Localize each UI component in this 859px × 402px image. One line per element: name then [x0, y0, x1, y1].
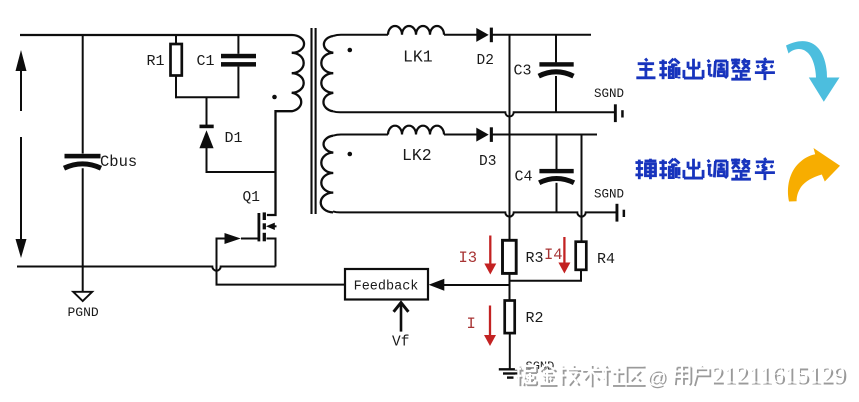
- svg-text:R2: R2: [526, 310, 544, 327]
- resistor R4: [576, 242, 587, 270]
- capacitor C1: [221, 54, 256, 59]
- capacitor C4: [539, 169, 573, 173]
- wire C1 top lead: [237, 35, 239, 54]
- transformer secondary winding 2: [321, 136, 334, 213]
- wire output 1 return rail: [333, 111, 614, 116]
- svg-text:21211615129: 21211615129: [711, 362, 845, 389]
- svg-text:C3: C3: [514, 63, 532, 80]
- transistor Q1 gate bar: [257, 213, 260, 241]
- resistor R3: [503, 240, 517, 273]
- current arrow I3: [489, 236, 491, 266]
- svg-text:I4: I4: [544, 246, 563, 264]
- label aux output regulation (Chinese): [635, 159, 656, 180]
- wire gate lead: [241, 238, 259, 240]
- current arrow I: [489, 306, 491, 337]
- wire R3 bottom to R2: [509, 273, 511, 300]
- orange arrow aux output trend: [788, 148, 840, 202]
- feedback block U1: [345, 269, 428, 300]
- wire C3 bottom lead: [555, 76, 557, 112]
- svg-text:D1: D1: [225, 130, 243, 147]
- capacitor C3: [539, 62, 573, 66]
- svg-text:C4: C4: [515, 169, 533, 186]
- wire R2 to SGND: [509, 333, 511, 369]
- wire gate drive: [217, 239, 346, 285]
- svg-text:LK1: LK1: [403, 48, 433, 67]
- diode D1: [200, 125, 214, 129]
- svg-text:I3: I3: [459, 249, 478, 267]
- diode D3: [476, 128, 488, 142]
- svg-text:R3: R3: [526, 250, 544, 267]
- input voltage up arrow: [20, 70, 22, 111]
- ground SGND output 1: [614, 104, 617, 122]
- svg-text:LK2: LK2: [402, 146, 432, 165]
- secondary 2 phase dot: [348, 152, 353, 157]
- label main output regulation (Chinese): [636, 58, 655, 77]
- gate drive arrow: [225, 233, 241, 244]
- svg-text:Q1: Q1: [243, 190, 260, 206]
- ground SGND output 2: [616, 204, 619, 222]
- wire Vf arrow: [400, 304, 403, 332]
- capacitor Cbus: [65, 154, 101, 159]
- svg-text:D2: D2: [477, 53, 494, 69]
- wire secondary 2 top: [333, 135, 388, 136]
- input current down arrow: [20, 137, 22, 241]
- wire node V1 sense vertical: [509, 35, 511, 241]
- wire Cbus top lead: [82, 35, 84, 154]
- svg-text:PGND: PGND: [68, 305, 99, 320]
- current arrow I4: [563, 237, 565, 264]
- ground PGND: [73, 292, 92, 301]
- wire LK1 to D2: [444, 34, 477, 36]
- svg-text:R1: R1: [147, 53, 165, 70]
- resistor R1: [171, 44, 182, 76]
- transistor Q1 body arrow: [266, 223, 275, 230]
- transformer secondary winding 1: [321, 36, 333, 111]
- svg-text:Feedback: Feedback: [354, 280, 419, 295]
- svg-text:@: @: [647, 367, 667, 389]
- wire R1 bottom lead: [175, 76, 177, 99]
- cyan arrow main output trend: [786, 41, 840, 102]
- wire R1 top lead: [175, 35, 177, 44]
- wire LK2 to D3: [444, 134, 477, 136]
- svg-text:Cbus: Cbus: [100, 153, 137, 171]
- svg-text:D3: D3: [479, 154, 496, 170]
- wire C4 top lead: [556, 135, 558, 170]
- wire D1 top lead: [206, 97, 208, 125]
- svg-text:SGND: SGND: [594, 87, 624, 101]
- svg-text:C1: C1: [197, 53, 215, 70]
- wire node V2 sense vertical: [581, 135, 583, 242]
- watermark juejin community user id: [517, 367, 537, 387]
- feedback input arrow: [429, 279, 445, 291]
- primary phase dot: [272, 95, 277, 100]
- svg-text:Vf: Vf: [392, 335, 409, 351]
- wire C3 top lead: [555, 35, 557, 63]
- wire secondary 1 top: [333, 35, 388, 36]
- wire top rail and transformer primary winding T1 and Q1 drain riser: [20, 35, 304, 215]
- wire divider to feedback: [443, 284, 510, 286]
- inductor LK1: [388, 26, 444, 35]
- wire D1 anode to drain: [207, 148, 276, 172]
- wire R4 bottom jog: [510, 270, 582, 281]
- wire D3 cathode to output 2: [492, 134, 597, 136]
- ground SGND bottom: [499, 368, 522, 370]
- svg-text:I: I: [467, 315, 476, 333]
- wire PGND rail: [17, 267, 276, 271]
- secondary 1 phase dot: [348, 48, 353, 53]
- svg-text:R4: R4: [597, 251, 615, 268]
- wire output 2 return rail: [333, 211, 616, 216]
- wire C1 bottom lead: [237, 67, 239, 99]
- resistor R2: [505, 301, 515, 334]
- svg-text:SGND: SGND: [594, 188, 624, 202]
- wire D2 cathode to output 1: [492, 34, 591, 36]
- transistor Q1 source lead: [267, 239, 276, 267]
- wire C4 bottom lead: [556, 183, 558, 213]
- inductor LK2: [388, 126, 444, 135]
- wire Cbus bottom lead: [82, 168, 84, 266]
- transistor Q1 channel bar: [263, 212, 266, 220]
- diode D2: [476, 28, 488, 42]
- wire snubber bottom: [175, 96, 239, 98]
- wire PGND stub: [82, 267, 84, 292]
- transformer core: [310, 28, 312, 214]
